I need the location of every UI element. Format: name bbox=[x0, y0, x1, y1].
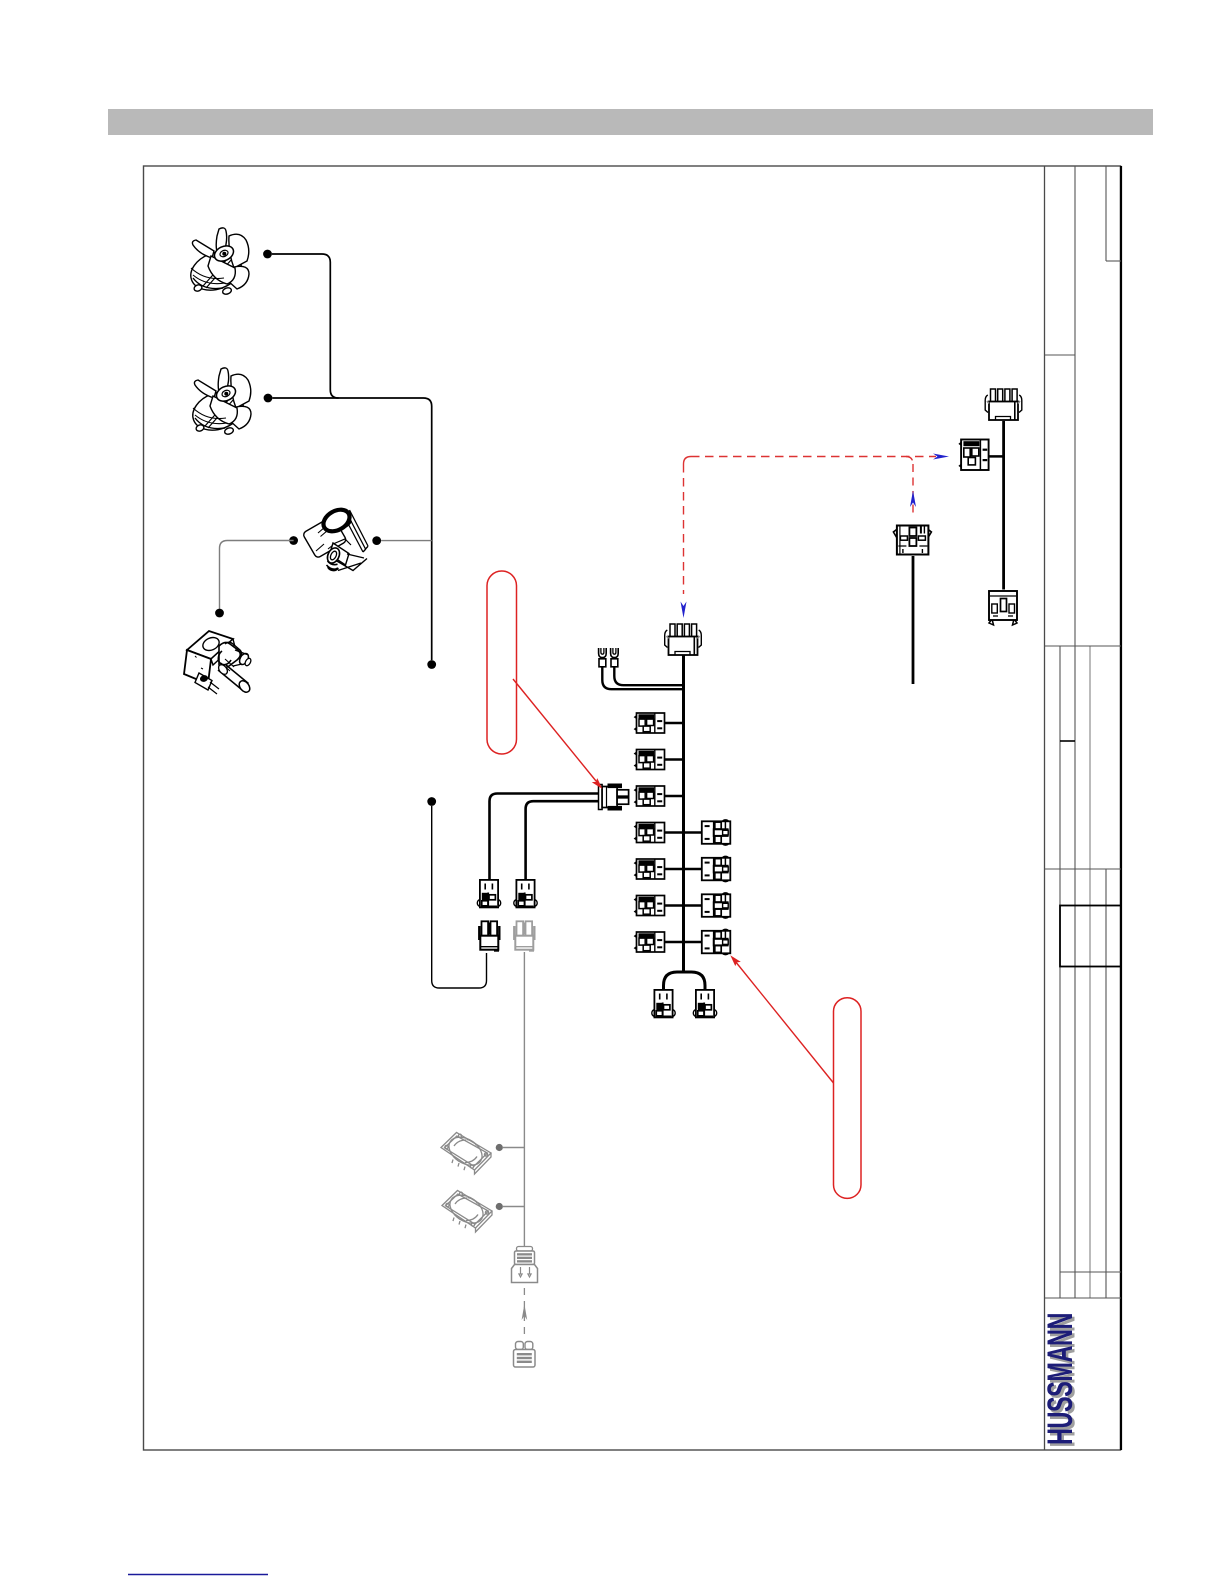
blue arrow up bbox=[910, 491, 916, 508]
trunk end connector left bbox=[652, 990, 675, 1018]
stub wire row 2 bbox=[664, 758, 684, 761]
pigtail connector T1 bbox=[477, 880, 500, 908]
wire right plug stub bbox=[989, 455, 1003, 458]
title block vertical x1075 bbox=[1074, 166, 1076, 1298]
title block cell line y741 bbox=[1060, 740, 1075, 742]
mating plug black bbox=[478, 921, 500, 951]
wire fan M1 to junction bbox=[272, 254, 339, 398]
stub wire row 5 bbox=[664, 868, 702, 871]
node dot fan M1 bbox=[263, 250, 272, 259]
node dot thermostat right bbox=[372, 536, 381, 545]
callout arrowhead 2 bbox=[730, 955, 741, 966]
callout capsule 1 bbox=[487, 571, 517, 754]
title block vertical x1060 bbox=[1059, 646, 1061, 1298]
title block cell line y1298 bbox=[1045, 1297, 1122, 1299]
connector row 4 left bbox=[635, 823, 665, 843]
title block cell line y869 bbox=[1045, 868, 1122, 870]
connector row 7 right bbox=[702, 929, 731, 954]
stub wire row 4 bbox=[664, 831, 702, 834]
connector row 4 right bbox=[702, 820, 731, 845]
connector row 5 left bbox=[635, 859, 665, 879]
defrost thermostat bbox=[302, 505, 368, 570]
wire CF1 to lead bbox=[503, 1147, 525, 1149]
wire P1 lead A bbox=[490, 794, 600, 880]
connector row 2 left bbox=[635, 750, 665, 770]
title block cell line y1272 bbox=[1060, 1271, 1121, 1273]
gray condenser fan CF2 bbox=[442, 1189, 492, 1232]
stub wire row 1 bbox=[664, 722, 684, 725]
stub wire row 7 bbox=[664, 941, 702, 944]
gray female connector bbox=[514, 1342, 536, 1368]
fork terminal A bbox=[599, 648, 607, 667]
right plug mid bbox=[960, 440, 989, 471]
node dot solenoid lead bbox=[215, 609, 224, 618]
wire fork A to trunk bbox=[602, 668, 683, 690]
stub wire row 3 bbox=[664, 795, 684, 798]
connector row 6 right bbox=[702, 893, 731, 918]
trunk end arch bbox=[664, 972, 706, 990]
harness trunk bbox=[682, 655, 685, 972]
wire harness drop to breakout plug bbox=[432, 806, 487, 988]
title block left edge bbox=[1044, 166, 1046, 1450]
connector row 3 left bbox=[635, 786, 665, 806]
trunk main connector bbox=[665, 624, 702, 655]
wire P1 lead B bbox=[526, 801, 599, 879]
trunk end connector right bbox=[693, 990, 716, 1018]
stub wire row 6 bbox=[664, 904, 702, 907]
interlock dashed route bbox=[684, 457, 937, 595]
header gray bar bbox=[108, 109, 1153, 135]
node dot CF2 bbox=[496, 1203, 503, 1210]
title block cell line y646 bbox=[1045, 645, 1122, 647]
footer blue rule bbox=[128, 1574, 268, 1576]
gray mating dashed indicator bbox=[523, 1288, 525, 1338]
right bottom connector bbox=[989, 591, 1017, 625]
breakout plug P1 bbox=[599, 784, 629, 811]
title block vertical x1106 upper bbox=[1105, 166, 1107, 261]
node dot thermostat left bbox=[289, 536, 298, 545]
wire CF2 to lead bbox=[503, 1206, 525, 1208]
title block heavy cell box bbox=[1060, 906, 1121, 967]
pressure control connector top right bbox=[985, 389, 1022, 420]
wire fork B to trunk bbox=[614, 668, 683, 686]
callout leader 2 bbox=[735, 961, 834, 1083]
title block cell line y261 bbox=[1106, 260, 1121, 262]
callout capsule 2 bbox=[834, 998, 862, 1199]
fan motor M2 bbox=[187, 368, 251, 437]
gray male connector bbox=[512, 1247, 538, 1283]
svg-text:HUSSMANN: HUSSMANN bbox=[1042, 1313, 1081, 1445]
fan motor M1 bbox=[185, 228, 249, 297]
node dot riser end bbox=[427, 660, 436, 669]
blue arrow down bbox=[681, 602, 687, 619]
gray condenser fan CF1 bbox=[441, 1131, 491, 1174]
fork terminal B bbox=[611, 648, 619, 667]
title block cell line y355 bbox=[1045, 354, 1076, 356]
title block right heavy border bbox=[1120, 166, 1122, 1450]
title block vertical x1090 bbox=[1089, 646, 1091, 1298]
blue arrow right bbox=[933, 454, 949, 460]
wire pressure switch drop bbox=[912, 556, 915, 684]
wire thermostat left lead bbox=[220, 541, 294, 609]
node dot CF1 bbox=[496, 1144, 503, 1151]
wire right harness vertical bbox=[1002, 421, 1005, 590]
connector row 1 left bbox=[635, 713, 665, 733]
mating plug gray bbox=[513, 921, 535, 951]
callout leader 1 bbox=[513, 679, 596, 781]
wire gray plug lead bbox=[523, 952, 525, 1247]
node dot harness drop bbox=[427, 797, 436, 806]
callout arrowhead 1 bbox=[592, 778, 603, 789]
connector row 6 left bbox=[635, 896, 665, 916]
pigtail connector T2 bbox=[514, 880, 537, 908]
wire thermostat right lead bbox=[381, 540, 432, 542]
liquid line solenoid valve bbox=[184, 631, 252, 694]
node dot fan M2 bbox=[264, 394, 273, 403]
drawing frame border bbox=[144, 166, 1121, 1450]
pressure switch connector bbox=[893, 526, 931, 555]
connector row 5 right bbox=[702, 856, 731, 881]
title block vertical x1106 lower bbox=[1105, 869, 1107, 1298]
gray mating arrow bbox=[522, 1304, 528, 1320]
connector row 7 left bbox=[635, 932, 665, 952]
HUSSMANN logo bbox=[1042, 1313, 1083, 1448]
wire fan M2 to vertical riser bbox=[272, 398, 431, 660]
